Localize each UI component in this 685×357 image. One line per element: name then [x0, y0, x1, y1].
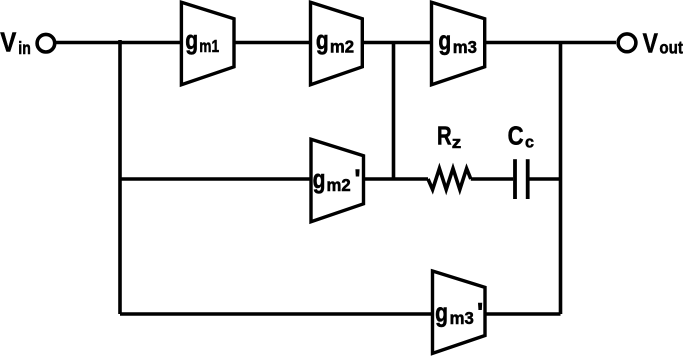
svg-text:z: z	[452, 133, 462, 152]
svg-text:V: V	[643, 28, 658, 59]
svg-text:g: g	[313, 164, 326, 194]
svg-text:out: out	[659, 37, 683, 58]
svg-text:g: g	[435, 298, 448, 328]
svg-text:V: V	[0, 26, 17, 58]
svg-text:m2: m2	[330, 36, 354, 57]
svg-text:R: R	[437, 121, 452, 150]
svg-text:g: g	[185, 25, 198, 55]
svg-text:': '	[354, 164, 360, 194]
svg-text:C: C	[508, 122, 524, 151]
svg-text:': '	[477, 297, 483, 327]
svg-text:in: in	[18, 38, 30, 58]
svg-text:m2: m2	[327, 175, 351, 196]
svg-text:g: g	[316, 26, 329, 56]
svg-text:c: c	[525, 132, 534, 151]
svg-text:m1: m1	[199, 37, 219, 56]
svg-text:m3: m3	[450, 308, 475, 329]
svg-text:g: g	[438, 26, 451, 56]
svg-text:m3: m3	[453, 36, 478, 57]
